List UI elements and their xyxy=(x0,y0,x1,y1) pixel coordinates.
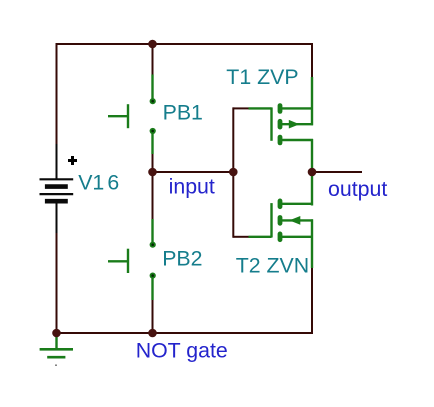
pushbutton PB2 terminal bottom xyxy=(150,273,156,279)
transistor T1 source line xyxy=(280,107,313,109)
wire PB1 top lead maroon xyxy=(152,44,154,75)
node ground corner junction xyxy=(52,329,61,338)
wire left vertical lower xyxy=(56,232,58,334)
svg-text:V1: V1 xyxy=(78,170,104,194)
wire right vertical top segment xyxy=(311,43,313,78)
transistor T2 channel bar bottom xyxy=(278,232,283,243)
pushbutton PB2 plate xyxy=(127,249,129,273)
transistor T1 gate bar xyxy=(270,107,272,140)
transistor T2 bulk line with arrow xyxy=(280,219,313,221)
wire bottom rail xyxy=(56,332,314,334)
pushbutton PB1 plate xyxy=(127,104,129,128)
transistor T2 gate lead green xyxy=(249,236,272,238)
pushbutton PB1 terminal bottom xyxy=(150,128,156,134)
transistor T2 channel bar top xyxy=(278,199,283,210)
svg-text:NOT gate: NOT gate xyxy=(136,339,228,363)
wire top rail xyxy=(56,43,314,45)
transistor T2 source vertical to ground rail xyxy=(311,219,313,268)
wire T2 gate lead maroon xyxy=(233,236,248,238)
node input gate junction xyxy=(229,168,238,177)
battery V1 plate 3 thin xyxy=(40,193,74,195)
svg-text:6: 6 xyxy=(107,170,119,194)
battery V1 plate 4 thick xyxy=(45,199,68,204)
transistor T1 channel bar top xyxy=(278,103,283,114)
battery plus sign xyxy=(68,156,77,165)
wire T1 gate lead maroon xyxy=(233,107,248,109)
pushbutton PB2 top lead green xyxy=(151,219,153,243)
svg-text:output: output xyxy=(328,177,387,201)
transistor T1 source vertical to rail xyxy=(311,77,313,125)
svg-text:PB1: PB1 xyxy=(163,100,203,124)
svg-text:input: input xyxy=(169,175,215,199)
wire left vertical upper xyxy=(56,43,58,145)
transistor T1 bulk line with arrow xyxy=(280,123,313,125)
svg-text:T2 ZVN: T2 ZVN xyxy=(236,253,309,277)
node top rail junction xyxy=(148,40,157,49)
transistor T2 drain line xyxy=(280,203,313,205)
transistor T1 drain line xyxy=(280,139,313,141)
wire PB2 top lead maroon xyxy=(152,172,154,219)
transistor T2 source line xyxy=(280,236,313,238)
battery V1 top lead xyxy=(56,144,58,179)
node output junction xyxy=(308,168,317,177)
svg-text:T1 ZVP: T1 ZVP xyxy=(226,65,298,89)
transistor T2 gate bar xyxy=(270,203,272,237)
pushbutton PB2 stem xyxy=(108,260,127,262)
wire gate rail vertical xyxy=(232,107,234,237)
battery V1 plate 2 thick xyxy=(45,184,68,189)
svg-text:PB2: PB2 xyxy=(162,247,202,271)
wire PB2 bottom lead maroon xyxy=(152,300,154,334)
transistor T2 channel bar middle xyxy=(278,215,283,226)
battery V1 bottom lead xyxy=(56,202,58,233)
pushbutton PB1 stem xyxy=(108,115,127,117)
wire output horizontal xyxy=(312,171,362,173)
wire PB1 bottom lead maroon xyxy=(152,154,154,173)
transistor T1 gate lead green xyxy=(249,107,272,109)
transistor T1 channel bar middle xyxy=(278,119,283,130)
transistor T1 channel bar bottom xyxy=(278,135,283,146)
node input left junction xyxy=(148,168,157,177)
battery V1 plate 1 thin xyxy=(40,178,74,180)
ground symbol xyxy=(55,334,57,349)
node bottom rail junction xyxy=(148,329,157,338)
wire right vertical bottom segment xyxy=(311,268,313,334)
pushbutton PB2 terminal top xyxy=(150,242,156,248)
transistor T2 drain vertical to output xyxy=(311,171,313,206)
pushbutton PB1 terminal top xyxy=(150,98,156,104)
pushbutton PB1 bottom lead green xyxy=(151,133,153,154)
wire input horizontal xyxy=(153,171,235,173)
transistor T1 drain vertical to output xyxy=(311,139,313,173)
pushbutton PB1 top lead green xyxy=(151,75,153,100)
pushbutton PB2 bottom lead green xyxy=(151,278,153,300)
